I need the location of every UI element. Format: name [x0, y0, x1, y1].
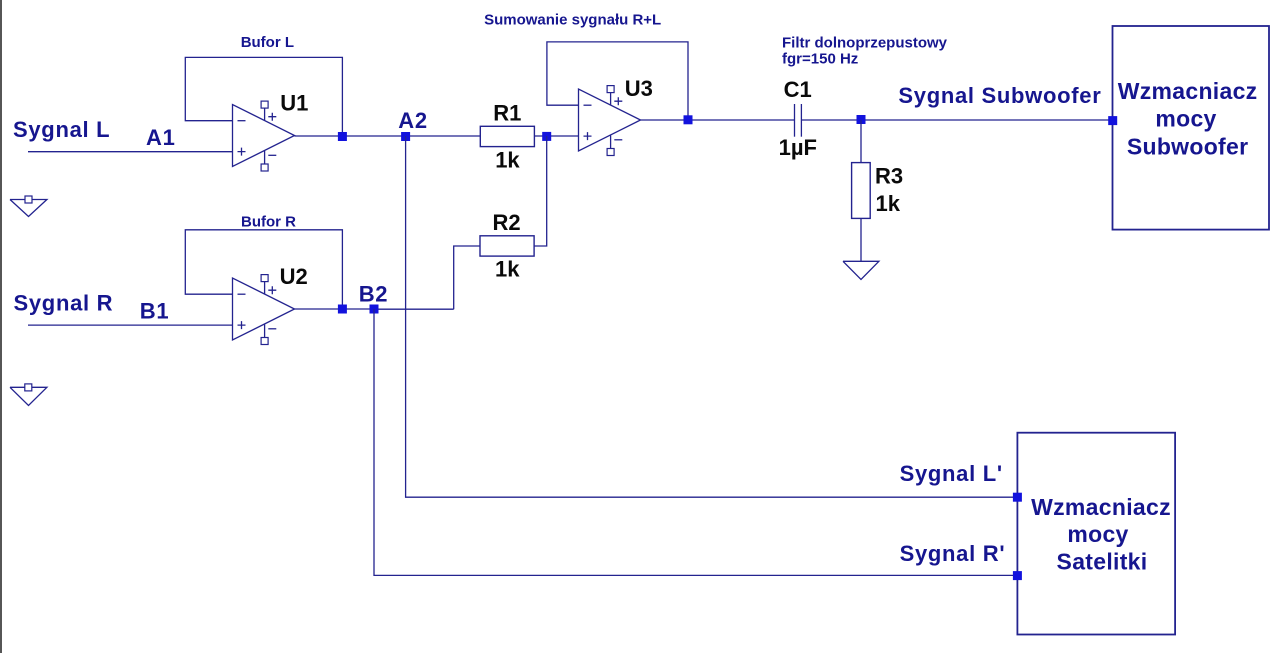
junction U1 output: [338, 132, 347, 141]
junction B2: [370, 305, 379, 314]
svg-text:U1: U1: [280, 91, 308, 116]
wire A2 drop to Sygnal L': [406, 136, 1018, 497]
svg-text:U2: U2: [280, 264, 308, 289]
block Wzmacniacz mocy Subwoofer: [1113, 26, 1270, 230]
svg-text:B2: B2: [359, 282, 389, 307]
wire U2 output: [295, 308, 375, 310]
block Wzmacniacz mocy Satelitki: [1017, 433, 1175, 635]
junction C1-R3: [857, 115, 866, 124]
junction A2: [401, 132, 410, 141]
svg-text:Wzmacniacz: Wzmacniacz: [1031, 494, 1171, 520]
junction R1 right: [542, 132, 551, 141]
wire junction down to R2: [534, 136, 547, 246]
wire B2 drop to Sygnal R': [374, 309, 1017, 575]
svg-text:fgr=150 Hz: fgr=150 Hz: [782, 50, 858, 67]
op-amp U2: [233, 275, 295, 345]
svg-text:Sygnal L: Sygnal L: [13, 117, 110, 142]
svg-text:Sygnal Subwoofer: Sygnal Subwoofer: [898, 83, 1101, 108]
capacitor C1: [795, 104, 802, 137]
svg-text:Bufor L: Bufor L: [241, 34, 294, 51]
wire R1 to U3 plus input: [534, 135, 578, 137]
svg-text:1k: 1k: [495, 147, 520, 172]
svg-text:A2: A2: [398, 108, 428, 133]
svg-text:1µF: 1µF: [779, 135, 817, 160]
op-amp U3: [579, 86, 641, 156]
svg-text:1k: 1k: [876, 191, 901, 216]
wire U2 feedback loop: [185, 230, 342, 305]
junction Sygnal L' at box: [1013, 493, 1022, 502]
svg-text:1k: 1k: [495, 257, 520, 282]
wire R3 to ground: [860, 218, 862, 261]
junction U2 output: [338, 305, 347, 314]
ground under R3: [843, 261, 879, 279]
wire B2 to R2 drop: [374, 308, 454, 310]
svg-text:mocy: mocy: [1067, 521, 1128, 547]
svg-text:Sumowanie sygnału R+L: Sumowanie sygnału R+L: [484, 11, 661, 28]
svg-text:U3: U3: [625, 76, 653, 101]
svg-text:Filtr dolnoprzepustowy: Filtr dolnoprzepustowy: [782, 35, 948, 52]
resistor R2: [480, 236, 534, 256]
svg-text:Bufor R: Bufor R: [241, 214, 296, 231]
svg-text:Sygnal R': Sygnal R': [900, 541, 1006, 566]
svg-text:R2: R2: [493, 210, 521, 235]
left window border: [0, 0, 2, 653]
op-amp U1: [233, 101, 295, 171]
svg-text:R3: R3: [875, 164, 903, 189]
svg-text:Wzmacniacz: Wzmacniacz: [1118, 78, 1258, 104]
wire U1 feedback loop: [185, 57, 342, 132]
junction U3 output: [684, 115, 693, 124]
ground near Sygnal R: [10, 384, 47, 406]
wire U3 feedback loop: [547, 42, 688, 116]
svg-text:Sygnal R: Sygnal R: [14, 290, 114, 315]
svg-text:Satelitki: Satelitki: [1057, 548, 1148, 574]
wire A1 input: [28, 151, 233, 153]
resistor R3: [852, 163, 871, 219]
wire R2 left to B2 rail: [454, 246, 480, 309]
svg-text:R1: R1: [493, 101, 521, 126]
svg-text:A1: A1: [146, 125, 176, 150]
svg-text:Sygnal L': Sygnal L': [900, 461, 1003, 486]
svg-text:C1: C1: [784, 77, 812, 102]
wire C1 to subwoofer box: [801, 119, 1112, 121]
svg-text:B1: B1: [140, 299, 170, 324]
wire U1 output rail to R1: [295, 135, 481, 137]
svg-text:mocy: mocy: [1155, 106, 1216, 132]
wire U3 output to C1: [641, 119, 795, 121]
svg-text:Subwoofer: Subwoofer: [1127, 133, 1249, 159]
junction Sygnal R' at box: [1013, 571, 1022, 580]
ground near Sygnal L: [10, 196, 47, 217]
resistor R1: [480, 126, 534, 146]
wire B1 input: [28, 324, 233, 326]
wire junction down to R3: [860, 120, 862, 163]
junction at subwoofer box: [1108, 116, 1117, 125]
